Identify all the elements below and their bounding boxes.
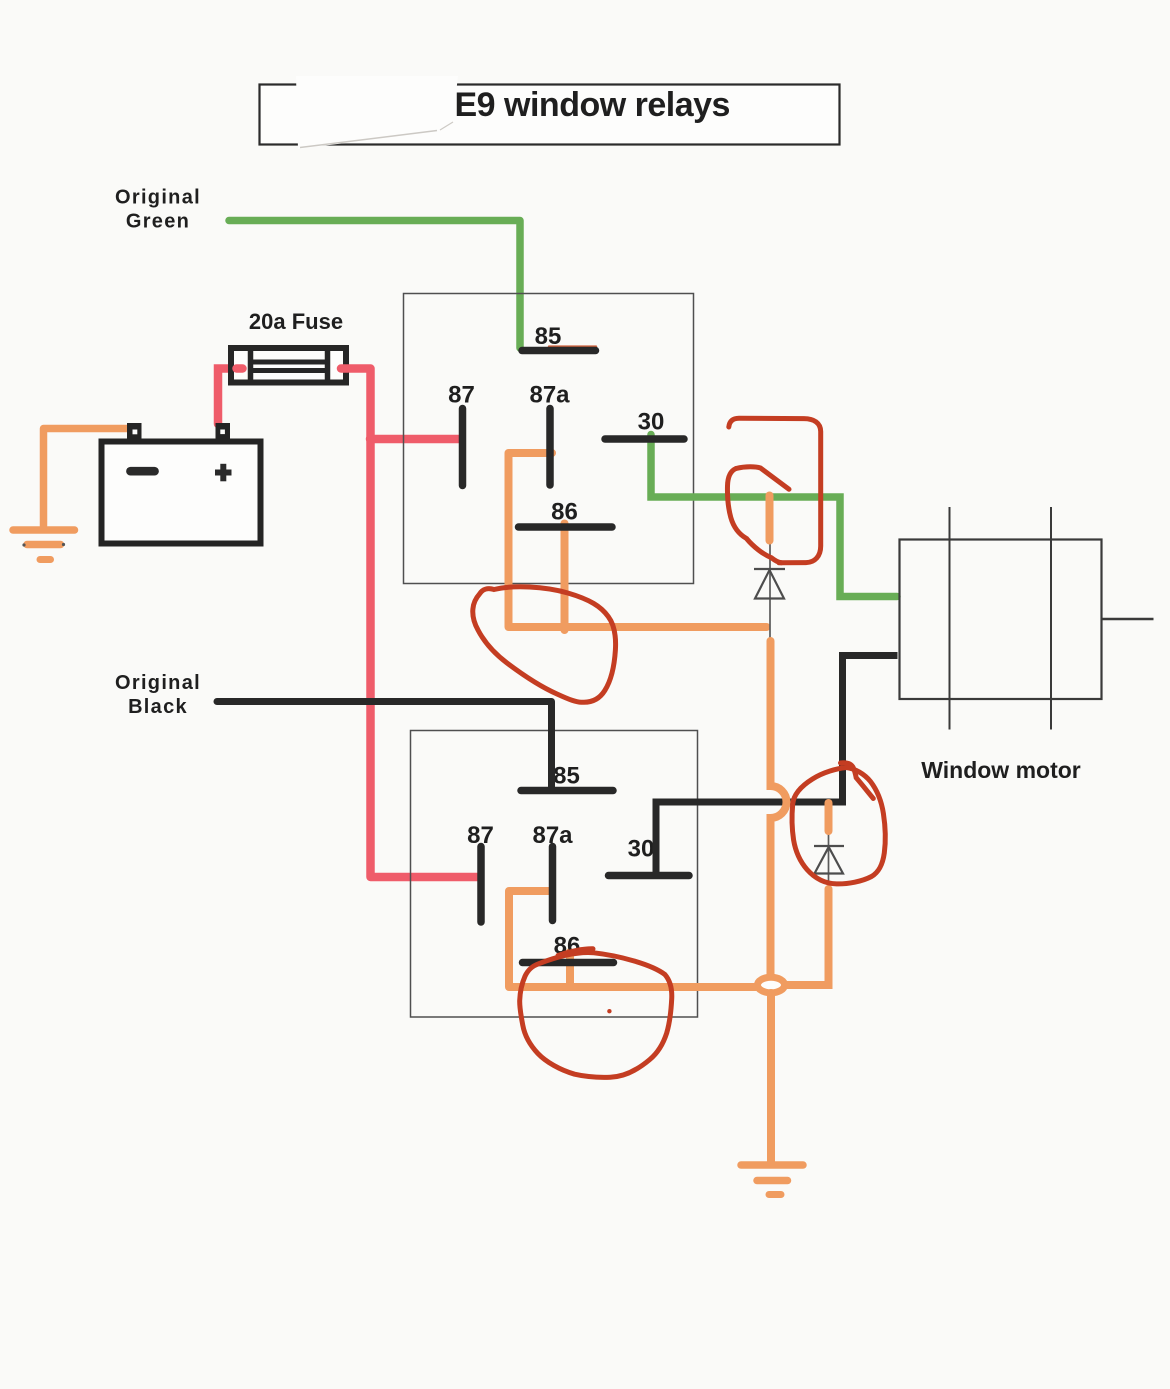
svg-text:85: 85: [535, 323, 562, 350]
label Original Green: [115, 187, 201, 233]
relay K1 orange wire from pin 86: [561, 524, 569, 631]
svg-text:30: 30: [638, 409, 665, 436]
relay K1 box: [404, 294, 694, 584]
wire orange battery minus to ground: [44, 429, 133, 527]
annotation red loop around diode2: [792, 768, 885, 884]
battery B1: [102, 423, 261, 544]
relay K2 orange wire from pin 86: [566, 952, 574, 987]
relay K2 pin 87: [477, 847, 485, 923]
svg-text:86: 86: [551, 499, 578, 526]
annotation red loop tail: [841, 763, 874, 799]
svg-text:Black: Black: [128, 696, 188, 718]
relay K1 pin 87: [459, 409, 467, 486]
window motor M1 box: [900, 507, 1154, 730]
relay K1 pin 86: [519, 523, 613, 531]
wire pink fuse right down to relay2 pin 87: [346, 369, 479, 878]
annotation red tail over pin86: [558, 949, 593, 956]
svg-text:30: 30: [628, 836, 655, 863]
annotation red circle around relay2 pin86: [520, 953, 672, 1078]
wire green from Original Green to relay1 pin 85: [229, 221, 520, 349]
pink tip in fuse left cap: [237, 364, 243, 373]
relay K1 orange wire 87a to bottom rail: [509, 453, 767, 627]
annotation red blob around diode1: [727, 469, 781, 563]
wire pink fuse left to battery plus terminal: [218, 369, 242, 425]
relay K2 pin 30: [609, 872, 690, 880]
ground tick artifacts: [22, 543, 25, 546]
svg-text:Green: Green: [126, 211, 190, 233]
wire green relay1 pin30 to window motor: [651, 435, 897, 597]
svg-text:Window motor: Window motor: [921, 757, 1081, 783]
ground symbol bottom: [741, 1165, 803, 1195]
relay K2 orange wire 87a to junction: [509, 891, 757, 987]
fuse F1: [231, 347, 346, 383]
svg-text:Original: Original: [115, 187, 201, 209]
wire black relay2 pin30 to window motor: [656, 656, 898, 873]
relay K2 pin 87a: [549, 847, 557, 921]
label Original Black: [115, 672, 201, 718]
svg-text:87a: 87a: [532, 822, 573, 849]
svg-text:87: 87: [448, 382, 475, 409]
relay K1 pin 87a: [546, 409, 554, 486]
diode D2 thin lead: [828, 805, 830, 886]
wire black Original Black to relay2 pin 85: [217, 702, 552, 788]
diode D2: [814, 846, 844, 874]
relay K1 pin 30: [605, 435, 684, 443]
svg-text:87: 87: [467, 822, 494, 849]
relay K2 pin 86: [523, 959, 614, 967]
svg-text:Original: Original: [115, 672, 201, 694]
wire pink branch to relay1 pin 87: [370, 435, 461, 444]
svg-text:20a Fuse: 20a Fuse: [249, 309, 343, 334]
svg-text:85: 85: [553, 763, 580, 790]
ground symbol left: [13, 530, 75, 560]
orange wire junction to ground: [767, 993, 775, 1162]
annotation red blob below relay1: [473, 587, 616, 702]
svg-text:E9 window relays: E9 window relays: [455, 86, 730, 124]
junction node ellipse: [758, 977, 785, 993]
orange wire diode2 to junction: [787, 889, 829, 985]
title box: [260, 76, 840, 149]
relay K2 box: [411, 731, 698, 1018]
annotation red box around diode1: [729, 418, 821, 563]
diode D2 orange anode stub: [825, 803, 833, 831]
diode D1: [754, 569, 785, 599]
annotation red blob around diode1 tail: [736, 467, 789, 490]
diode D1 orange anode stub: [766, 496, 774, 541]
annotation red dot: [607, 1009, 611, 1013]
orange main wire diode1 to junction with hop over black wire: [771, 641, 787, 974]
relay K1 pin 85: [549, 345, 596, 347]
svg-text:87a: 87a: [529, 382, 570, 409]
pink tip at fuse right cap: [341, 364, 348, 373]
diode D1 thin lead: [769, 499, 771, 644]
